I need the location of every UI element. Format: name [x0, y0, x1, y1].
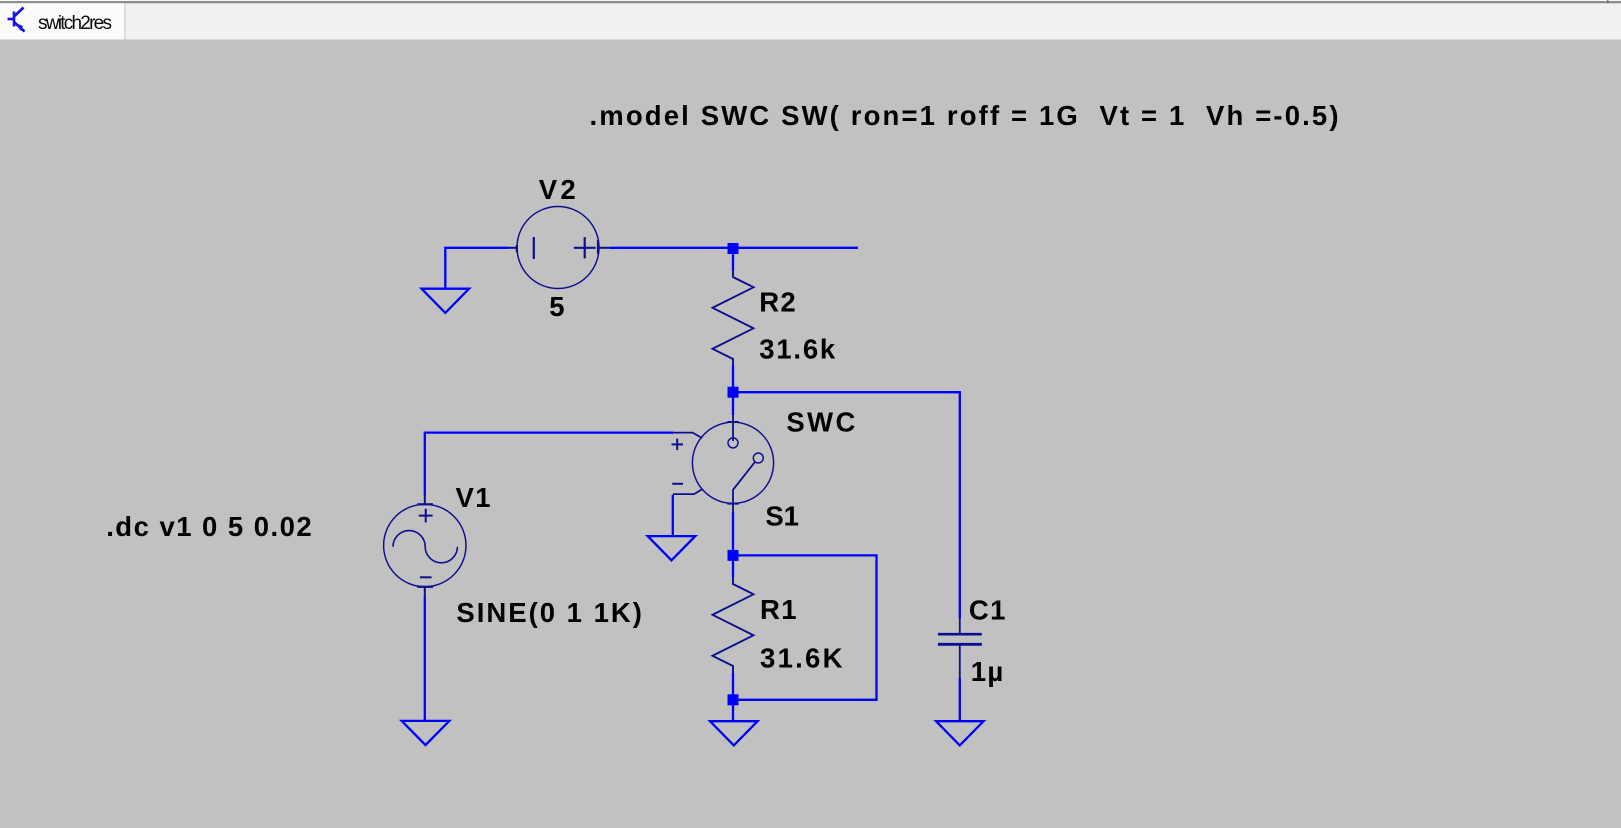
svg-text:switch2res: switch2res [38, 13, 112, 34]
svg-text:SWC: SWC [786, 407, 855, 438]
svg-text:31.6k: 31.6k [759, 334, 836, 365]
svg-text:C1: C1 [969, 594, 1006, 625]
svg-text:31.6K: 31.6K [760, 643, 843, 674]
svg-text:.model SWC SW( ron=1 roff = 1G: .model SWC SW( ron=1 roff = 1G Vt = 1 Vh… [590, 100, 1339, 131]
svg-text:S1: S1 [765, 501, 799, 532]
svg-text:R2: R2 [759, 287, 796, 318]
svg-text:5: 5 [549, 291, 564, 322]
svg-text:R1: R1 [760, 594, 797, 625]
svg-text:V1: V1 [456, 482, 491, 513]
svg-text:SINE(0 1 1K): SINE(0 1 1K) [456, 597, 642, 628]
svg-text:1µ: 1µ [971, 656, 1004, 687]
svg-text:.dc v1 0 5 0.02: .dc v1 0 5 0.02 [106, 511, 312, 542]
